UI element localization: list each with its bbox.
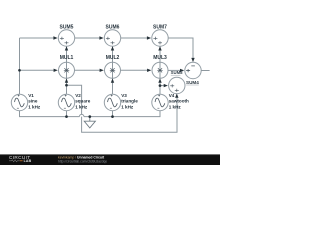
source V4	[152, 94, 168, 110]
junction V4-SUM4	[159, 84, 162, 87]
svg-text:V4: V4	[169, 93, 175, 98]
wire MUL2 out to MUL3	[121, 69, 149, 71]
junction V2-bus	[65, 115, 68, 118]
summer SUM8	[185, 62, 201, 78]
svg-text:SUM7: SUM7	[153, 24, 167, 30]
footer bar	[0, 154, 220, 165]
source V1	[11, 94, 27, 110]
wire V2 vertical through MUL1 to SUM5 bottom	[66, 47, 68, 95]
wire V2 branch feedback to SUM4 bottom	[67, 85, 178, 132]
arrow into SUM6 bottom	[111, 46, 114, 50]
svg-text:sine: sine	[28, 99, 38, 104]
svg-text:1 kHz: 1 kHz	[169, 105, 182, 110]
wire SUM8 output stub	[201, 70, 209, 72]
svg-text:V2: V2	[75, 93, 81, 98]
svg-text:1 kHz: 1 kHz	[28, 105, 41, 110]
footer logo resistor zigzag	[9, 160, 20, 162]
junction V1-MUL1	[18, 69, 21, 72]
svg-text:V3: V3	[121, 93, 127, 98]
SUM7 plus signs	[153, 37, 162, 45]
wire V1 vertical to SUM5 row	[19, 38, 21, 94]
svg-text:sawtooth: sawtooth	[169, 99, 189, 104]
wire V1 branch to MUL1 left input	[20, 69, 55, 71]
arrow into MUL2 bottom	[111, 79, 114, 83]
svg-text:MUL2: MUL2	[106, 55, 120, 61]
SUM5 plus signs	[60, 37, 69, 45]
SUM8 plus and minus signs	[186, 66, 195, 72]
ground bus with hop	[79, 114, 84, 116]
wire SUM5 out to SUM6	[75, 37, 101, 39]
wire MUL1 out to MUL2	[75, 69, 101, 71]
SUM4 plus signs	[170, 84, 179, 92]
svg-text:MUL3: MUL3	[153, 55, 167, 61]
arrow into MUL3 bottom	[158, 79, 161, 83]
arrow into SUM6 left	[99, 36, 103, 39]
summer SUM6	[104, 30, 120, 46]
source V2	[58, 94, 74, 110]
arrow into MUL1 bottom	[65, 79, 68, 83]
MUL3 x sign	[157, 68, 162, 72]
wire V4 vertical through MUL3 to SUM7 bottom	[159, 47, 161, 95]
multiplier MUL1	[59, 62, 75, 78]
summer SUM4	[169, 77, 185, 93]
svg-text:SUM8: SUM8	[171, 70, 184, 75]
arrow into SUM8 left	[180, 69, 184, 72]
junction ground-bus	[88, 115, 91, 118]
svg-text:MUL1: MUL1	[60, 55, 74, 61]
multiplier MUL2	[105, 62, 121, 78]
arrow into SUM5 left	[53, 36, 57, 39]
wire SUM6 out to SUM7	[121, 37, 149, 39]
svg-text:http://circuitlab.com/c6d9L8az: http://circuitlab.com/c6d9L8azdqe	[58, 159, 107, 163]
arrow into SUM7 bottom	[158, 46, 161, 50]
ground	[84, 117, 95, 128]
arrow into SUM7 left	[147, 36, 151, 39]
MUL2 x sign	[110, 68, 115, 72]
arrow into MUL1 left	[54, 69, 58, 72]
svg-text:V1: V1	[28, 93, 34, 98]
arrow into SUM4 bottom	[175, 94, 178, 98]
arrow into MUL3 left	[147, 69, 151, 72]
wire V1 to SUM5 left input	[20, 37, 55, 39]
wire MUL3 out to SUM8 left	[168, 69, 181, 71]
junction V3-bus	[111, 115, 114, 118]
svg-text:SUM6: SUM6	[106, 24, 120, 30]
arrow into SUM5 bottom	[65, 46, 68, 50]
MUL1 x sign	[64, 68, 69, 72]
svg-text:SUM4: SUM4	[186, 80, 199, 85]
wire V2 bottom to bus	[66, 110, 68, 116]
svg-text:LAB: LAB	[24, 159, 32, 163]
SUM6 plus signs	[106, 37, 115, 45]
svg-text:triangle: triangle	[121, 99, 138, 104]
wire V3 bottom to bus	[112, 110, 114, 116]
wire SUM7 out to SUM8 top	[168, 38, 193, 59]
wire V3 vertical through MUL2 to SUM6 bottom	[112, 47, 114, 95]
wire V4 branch to SUM4 left	[160, 85, 165, 87]
summer SUM5	[58, 30, 74, 46]
svg-text:1 kHz: 1 kHz	[75, 105, 88, 110]
arrow into SUM4 left	[164, 84, 168, 87]
svg-text:square: square	[75, 99, 91, 104]
junction V2-feedback	[65, 84, 68, 87]
summer SUM7	[152, 30, 168, 46]
arrow into MUL2 left	[100, 69, 104, 72]
svg-text:1 kHz: 1 kHz	[121, 105, 134, 110]
arrow into SUM8 top	[191, 58, 194, 62]
source V3	[104, 94, 120, 110]
multiplier MUL3	[152, 62, 168, 78]
svg-text:SUM5: SUM5	[60, 24, 74, 30]
